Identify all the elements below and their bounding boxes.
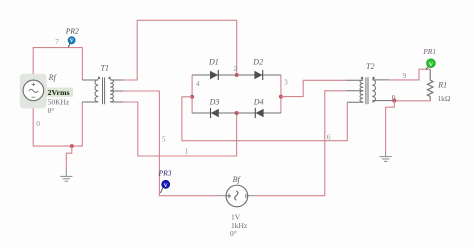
T2 left lead bottom [347,101,363,103]
svg-text:D4: D4 [253,97,264,106]
svg-text:PR3: PR3 [158,168,172,177]
svg-text:0°: 0° [48,106,55,115]
T2 left lead center tap [346,90,363,92]
transformer T2 [346,77,394,104]
T1 secondary coil [110,80,113,102]
svg-text:4: 4 [196,79,200,88]
bridge top rail [192,74,281,76]
svg-text:2: 2 [233,64,237,73]
T2 polarity dots [361,77,363,79]
svg-text:Rf: Rf [48,73,58,82]
T1 primary coil [95,80,98,102]
AC source Rf [20,74,47,109]
svg-text:PR1: PR1 [422,47,436,56]
diode D1 [210,70,218,80]
resistor R1 [427,69,433,101]
T2 left lead top [346,79,363,81]
svg-text:0°: 0° [230,229,237,238]
wire bridge right to T2 primary top [281,80,346,96]
diode D3 [211,108,219,118]
junction node 0 right [392,99,396,103]
T1 right lead center tap [110,90,123,92]
svg-text:1kΩ: 1kΩ [437,94,451,103]
transformer T1 [82,77,123,104]
T2 primary coil [360,80,363,102]
diode bridge right rail node 3 [280,75,282,113]
diode bridge left rail node 4 [191,75,193,113]
wire source top to T1 primary top [33,48,82,81]
wire T1 sec bottom to bridge bottom node [123,102,237,156]
svg-text:R1: R1 [437,80,447,89]
T1 left lead top [82,79,98,81]
svg-text:D3: D3 [209,97,220,106]
T2 secondary coil [372,80,375,102]
bridge bottom rail [192,112,281,114]
svg-text:5: 5 [162,134,166,143]
svg-text:PR2: PR2 [65,26,79,35]
svg-text:T1: T1 [101,64,109,73]
ground (left) [60,170,72,181]
T1 core [103,77,105,104]
wire bridge left to node 6 rail to T2 primary bottom [182,97,347,141]
junction bridge left [190,95,194,99]
wire T1 center tap down to PR3/B1 [123,91,219,196]
svg-text:D2: D2 [252,57,263,66]
wire T2 sec top to R1 top [389,69,430,80]
svg-text:2Vrms: 2Vrms [48,88,70,97]
wire R1 bottom to node 0 [394,100,430,102]
diode D4 [255,108,263,118]
probe PR3 [160,180,169,193]
svg-text:V: V [429,62,433,68]
junction at ground tap [70,144,74,148]
T1 polarity dots [98,77,100,79]
wire B1 right to T2 center tap [255,91,346,196]
wire source bottom loop to T1 primary bottom [33,102,82,146]
wire jog to ground [66,146,72,170]
wire T1 sec top to bridge node 2 (top rail) [123,20,237,80]
probe PR2 [68,37,75,47]
T1 right lead top [110,79,123,81]
svg-text:V: V [164,183,168,189]
svg-text:0: 0 [36,119,40,128]
probe PR1 [426,59,435,70]
svg-text:7: 7 [55,37,59,46]
T2 core [366,77,368,104]
svg-text:T2: T2 [366,62,374,71]
svg-text:6: 6 [327,132,331,141]
wire jog to ground right [386,101,395,153]
junction node 2 [235,73,239,77]
svg-text:9: 9 [403,71,407,80]
ground (right) [380,152,392,161]
AC source Bf [219,185,256,207]
junction bridge right [279,95,283,99]
svg-text:D1: D1 [208,57,219,66]
T2 right lead bottom [372,100,394,102]
T1 left lead bottom [82,101,98,103]
T2 right lead top [372,79,389,81]
diode D2 [254,70,262,80]
junction bridge bottom [235,111,239,115]
svg-text:3: 3 [284,77,288,86]
svg-text:1: 1 [185,147,189,156]
value 2Vrms highlighted [47,88,74,97]
svg-text:V: V [70,38,74,44]
svg-text:Bf: Bf [233,175,242,184]
T1 right lead bottom [110,101,123,103]
